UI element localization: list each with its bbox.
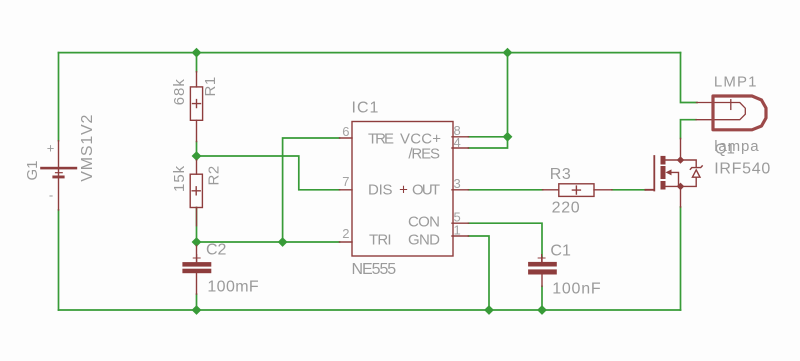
svg-text:4: 4 — [454, 135, 461, 150]
svg-text:+: + — [399, 182, 408, 199]
svg-text:6: 6 — [342, 124, 349, 139]
svg-text:TRE: TRE — [368, 131, 394, 148]
svg-text:CON: CON — [408, 214, 440, 231]
svg-text:LMP1: LMP1 — [714, 74, 757, 91]
svg-text:VMS1V2: VMS1V2 — [79, 115, 96, 182]
svg-text:NE555: NE555 — [352, 261, 397, 278]
svg-text:100mF: 100mF — [207, 279, 259, 296]
svg-text:15k: 15k — [171, 165, 188, 192]
svg-text:OUT: OUT — [412, 182, 440, 199]
svg-text:DIS: DIS — [368, 182, 393, 199]
svg-text:2: 2 — [342, 226, 349, 241]
svg-text:GND: GND — [408, 232, 440, 249]
svg-text:/RES: /RES — [408, 146, 440, 163]
svg-text:G1: G1 — [24, 160, 41, 180]
svg-text:-: - — [49, 188, 53, 203]
svg-text:220: 220 — [552, 200, 581, 217]
svg-text:R3: R3 — [550, 166, 571, 183]
svg-text:100nF: 100nF — [552, 280, 601, 297]
svg-text:7: 7 — [342, 174, 349, 189]
svg-text:68k: 68k — [171, 78, 188, 105]
svg-text:+: + — [47, 140, 55, 155]
svg-text:C2: C2 — [206, 242, 227, 259]
svg-text:R1: R1 — [202, 76, 219, 96]
svg-text:IRF540: IRF540 — [714, 161, 770, 178]
svg-text:R2: R2 — [205, 165, 222, 185]
svg-text:1: 1 — [454, 222, 461, 237]
svg-text:Q1: Q1 — [715, 141, 735, 158]
svg-text:C1: C1 — [550, 243, 571, 260]
svg-text:3: 3 — [454, 176, 461, 191]
svg-text:TRI: TRI — [369, 232, 392, 249]
svg-text:IC1: IC1 — [352, 100, 380, 117]
